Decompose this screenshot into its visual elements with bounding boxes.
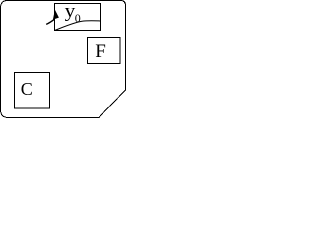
svg-text:F: F	[95, 41, 106, 62]
rounded enclosure outline	[1, 1, 126, 118]
svg-text:y: y	[65, 1, 76, 21]
swoosh arrow	[46, 10, 100, 31]
svg-text:C: C	[21, 79, 33, 99]
box C	[15, 73, 50, 109]
box V0	[55, 1, 101, 30]
box F	[88, 38, 121, 64]
